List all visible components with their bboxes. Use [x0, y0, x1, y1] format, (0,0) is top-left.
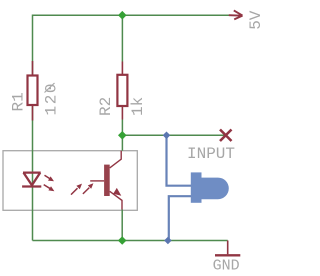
svg-text:5V: 5V — [247, 10, 265, 30]
svg-text:INPUT: INPUT — [187, 145, 235, 163]
svg-text:GND: GND — [213, 258, 240, 275]
svg-text:R1: R1 — [10, 92, 28, 111]
svg-text:1k: 1k — [129, 97, 147, 116]
svg-text:120: 120 — [43, 82, 61, 116]
svg-text:R2: R2 — [97, 97, 115, 116]
